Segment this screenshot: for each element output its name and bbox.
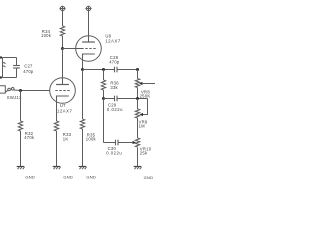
- wire jack node to U7 grid: [21, 90, 50, 92]
- wire R32 to ground: [20, 131, 22, 167]
- wire P1 stem to R34: [62, 11, 64, 26]
- node jack junction dot: [19, 89, 22, 92]
- svg-text:12AX7: 12AX7: [105, 38, 120, 43]
- svg-text:470p: 470p: [109, 59, 120, 64]
- wire node C down to C30 corner: [103, 99, 105, 143]
- wire corner to C30: [104, 142, 116, 144]
- wiper arrow VR8: [139, 82, 143, 85]
- capacitor C28: [115, 67, 118, 73]
- wire VR10 bottom to ground: [137, 148, 139, 167]
- node K8 junction dot: [81, 68, 84, 71]
- svg-text:GND: GND: [25, 174, 35, 179]
- ground G1: [17, 167, 25, 170]
- triode U7 12AX7: [50, 78, 76, 104]
- svg-text:1K: 1K: [63, 137, 69, 142]
- jack SWJ13 body and contacts: [0, 86, 21, 93]
- svg-text:12AX7: 12AX7: [57, 108, 72, 113]
- label C28 470p: [109, 55, 120, 64]
- svg-text:100k: 100k: [41, 33, 52, 38]
- svg-text:GND: GND: [86, 174, 96, 179]
- label SWJ13: [7, 95, 22, 100]
- label R36 33k: [110, 81, 119, 90]
- resistor R32: [18, 121, 22, 131]
- wire U7 cathode down to R33: [56, 96, 58, 121]
- corner dot VR8 top: [136, 68, 139, 71]
- node A junction dot: [61, 47, 64, 50]
- capacitor C27: [13, 58, 20, 78]
- capacitor C30: [116, 140, 119, 146]
- wire C30 to VR10 wiper: [119, 142, 134, 144]
- wire cathode node to C28: [83, 69, 115, 71]
- label GND 1: [25, 174, 35, 179]
- label GND 3: [86, 174, 96, 179]
- power node P1 (supply to R34): [59, 6, 65, 11]
- node R36 top junction dot: [102, 68, 105, 71]
- resistor R33: [54, 121, 58, 131]
- wire node C to C29: [104, 98, 115, 100]
- label C27 470p: [23, 64, 34, 74]
- label C29 0.022u: [107, 103, 123, 112]
- label GND right: [144, 175, 154, 180]
- wire node A down to U7 plate: [62, 49, 64, 85]
- potentiometer VR8: [135, 79, 139, 88]
- label U8 12AX7: [105, 33, 120, 43]
- label R34 100k: [41, 29, 52, 38]
- label U7 12AX7: [57, 103, 72, 113]
- potentiometer VR9: [135, 109, 139, 118]
- label VR9 1M: [139, 119, 148, 128]
- triode U8 12AX7: [76, 36, 102, 62]
- wire P2 stem to U8 plate: [88, 11, 90, 42]
- resistor R36: [103, 70, 105, 81]
- wire C28 to VR8 top: [118, 69, 138, 71]
- label R33 1K: [63, 132, 72, 142]
- svg-text:470p: 470p: [23, 69, 34, 74]
- svg-text:25k: 25k: [140, 150, 148, 155]
- wire R33 to ground: [56, 131, 58, 167]
- svg-text:250K: 250K: [140, 94, 151, 99]
- svg-text:GND: GND: [144, 175, 154, 180]
- resistor R34: [60, 26, 64, 36]
- svg-text:33k: 33k: [110, 85, 118, 90]
- label VR10 25k: [140, 146, 152, 155]
- wiper arrow VR10: [133, 141, 137, 144]
- node C junction dot: [102, 97, 105, 100]
- wire node A to U8 grid: [63, 48, 82, 50]
- potentiometer VR10: [135, 138, 139, 147]
- svg-text:1M: 1M: [139, 124, 146, 129]
- svg-text:100k: 100k: [86, 137, 97, 142]
- label R32 470k: [24, 131, 35, 140]
- wire VR9 bottom to VR10: [137, 118, 139, 138]
- svg-text:C27: C27: [24, 64, 33, 69]
- node B junction dot: [136, 97, 139, 100]
- ground G4: [134, 167, 142, 170]
- wire node B loop to VR9 wiper: [143, 99, 148, 115]
- wire R36 to node C: [103, 90, 105, 99]
- wire down to VR8: [137, 70, 139, 79]
- svg-text:SWJ13: SWJ13: [7, 95, 22, 100]
- ground G3: [79, 167, 87, 170]
- wire C29 to node B: [118, 98, 148, 100]
- svg-text:0.022u: 0.022u: [107, 107, 123, 112]
- resistor R35: [80, 119, 84, 129]
- svg-text:0.022u: 0.022u: [106, 150, 122, 155]
- label R35 100k: [86, 132, 97, 141]
- wire R34 to node A: [62, 36, 64, 49]
- wire jack node down to R32: [20, 91, 22, 122]
- svg-text:GND: GND: [63, 174, 73, 179]
- wire node B down to VR9: [137, 99, 139, 110]
- capacitor C29: [115, 96, 118, 102]
- wire U8 cathode down: [82, 54, 84, 70]
- wiper arrow VR9: [140, 113, 144, 116]
- ground G2: [53, 167, 61, 170]
- label VR8 250K: [140, 90, 151, 99]
- power node P2 (supply to U8 plate): [85, 6, 91, 11]
- connector J input shield loop: [0, 56, 17, 78]
- wire R35 to ground: [82, 129, 84, 167]
- wire U8 cathode node down to R35: [82, 70, 84, 120]
- label C30 0.022u: [106, 146, 122, 155]
- label GND 2: [63, 174, 73, 179]
- wire VR8 bottom to node B: [137, 88, 139, 99]
- svg-text:470k: 470k: [24, 135, 35, 140]
